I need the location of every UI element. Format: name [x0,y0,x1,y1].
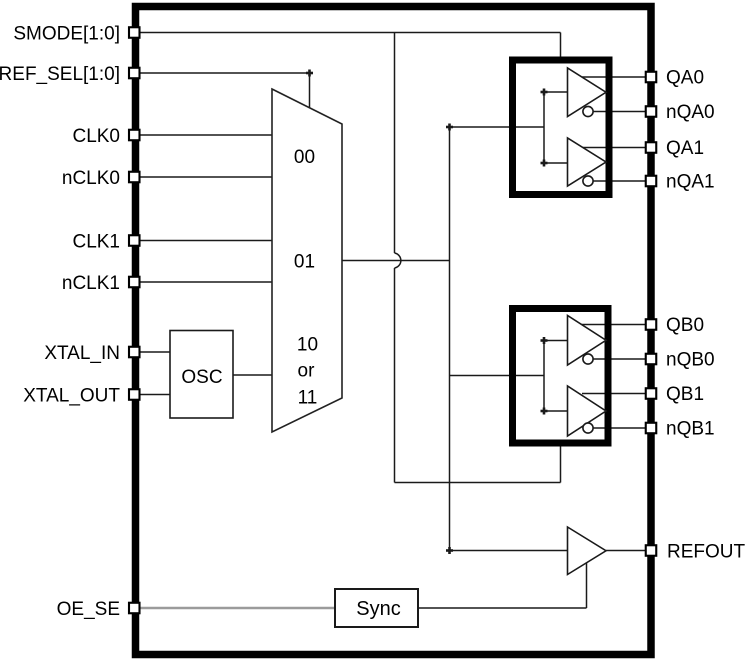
pin QA1 [646,142,657,153]
wire QA0 output [582,76,646,78]
inversion bubble on U4 [583,423,593,433]
svg-text:or: or [298,361,316,382]
junction nub bank B bottom [541,408,548,415]
svg-text:nCLK1: nCLK1 [62,273,120,294]
pin nQA0 [646,106,657,117]
wire CLK1 to mux [140,240,272,242]
pin nCLK1 [129,277,140,288]
svg-text:OE_SE: OE_SE [57,599,120,620]
svg-text:XTAL_OUT: XTAL_OUT [23,385,120,406]
pin nQA1 [646,176,657,187]
wire QA1 output [583,147,647,149]
wire SMODE drop into bank A top (x=561) [560,33,562,61]
svg-text:REF_SEL[1:0]: REF_SEL[1:0] [0,64,120,85]
sync block Sync [335,589,418,627]
pin CLK0 [129,130,140,141]
wire hop over mux output (arc bulging right) [395,253,401,268]
pin nQB1 [646,423,657,434]
svg-text:XTAL_IN: XTAL_IN [44,343,120,364]
pin nQB0 [646,354,657,365]
wire nCLK1 to mux [140,281,272,283]
svg-text:QB1: QB1 [666,384,704,405]
buffer U3 (QB0/nQB0) [568,316,607,366]
svg-text:CLK0: CLK0 [72,126,120,147]
svg-text:nQA1: nQA1 [666,171,715,192]
junction nub bank A bottom [541,160,548,167]
wire SMODE branch down at x=394.5 (upper segment) [394,33,396,254]
wire REFOUT output [606,550,646,552]
inversion bubble on U3 [583,354,593,364]
svg-text:10: 10 [297,335,318,356]
wire Sync output to REFOUT buffer enable [418,563,587,609]
junction nub at REF_SEL elbow [306,70,313,77]
inversion bubble on U2 [583,176,593,186]
bank A stub to buffer 1 [544,91,568,93]
svg-text:00: 00 [294,147,315,168]
wire nQB0 output [593,358,647,360]
wire feed to bank A (y=127) [450,126,545,128]
wire CLK0 to mux [140,134,272,136]
wire nCLK0 to mux [140,176,272,178]
svg-text:SMODE[1:0]: SMODE[1:0] [13,23,120,44]
bank B stub to buffer 4 [544,410,568,412]
pin SMODE[1:0] [129,27,140,38]
bank A stub to buffer 2 [544,162,568,164]
output bank A box (thick) [513,60,610,195]
wire REF_SEL to mux select [140,73,310,108]
device outer boundary box [136,7,652,655]
wire SMODE branch down at x=394.5 (lower segment) [394,268,396,483]
svg-text:QB0: QB0 [666,315,704,336]
svg-text:01: 01 [294,251,315,272]
pin REF_SEL[1:0] [129,68,140,79]
bank B stub to buffer 3 [544,340,568,342]
wire nQA1 output [593,180,647,182]
svg-text:nQA0: nQA0 [666,102,715,123]
svg-text:nCLK0: nCLK0 [62,168,120,189]
pin OE_SE [129,603,140,614]
wire rise into bank B bottom at x=561 [560,445,562,483]
pin XTAL_OUT [129,389,140,400]
pin QA0 [646,72,657,83]
pin nCLK0 [129,172,140,183]
svg-text:REFOUT: REFOUT [667,541,746,562]
wire feed to REFOUT buffer (y=550.5) [450,550,568,552]
pin XTAL_IN [129,347,140,358]
junction nub at bank A feed elbow [446,124,453,131]
wire QB1 output [582,393,646,395]
wire OE_SE to Sync (gray) [140,607,335,610]
buffer U5 REFOUT [568,527,607,575]
wire SMODE net (y=32.5 from pin to x=561) [140,32,561,34]
bank B internal distribution vertical [543,341,545,412]
pin QB0 [646,319,657,330]
mux M1 (trapezoid) [272,89,342,432]
pin REFOUT [646,545,657,556]
oscillator box OSC [170,331,233,419]
wire XTAL_OUT to OSC [140,394,170,396]
wire nQB1 output [593,427,647,429]
svg-text:QA1: QA1 [666,138,704,159]
wire bottom run from x=394.5 to x=561 at y=482.5 [395,482,561,484]
svg-text:11: 11 [298,388,318,409]
junction nub bank A top [541,89,548,96]
junction nub at REFOUT feed elbow [446,547,453,554]
wire feed to bank B (y=375.5) [450,375,545,377]
wire mux output y=260.5 [342,260,450,262]
pin QB1 [646,388,657,399]
junction nub bank B top [541,337,548,344]
buffer U2 (QA1/nQA1) [568,138,607,186]
wire XTAL_IN to OSC [140,351,170,353]
svg-text:QA0: QA0 [666,67,704,88]
wire QB0 output [582,324,647,326]
buffer U1 (QA0/nQA0) [568,68,607,117]
svg-text:nQB0: nQB0 [666,349,715,370]
wire nQA0 output [593,111,647,113]
pin CLK1 [129,235,140,246]
svg-text:CLK1: CLK1 [72,231,120,252]
inversion bubble on U1 [583,106,593,116]
wire main distribution vertical x=449.5 [449,127,451,551]
svg-text:Sync: Sync [356,598,400,620]
wire OSC output to mux [233,374,272,376]
svg-text:OSC: OSC [181,367,222,388]
output bank B box (thick) [513,309,609,444]
bank A internal distribution vertical [543,92,545,163]
svg-text:nQB1: nQB1 [666,418,715,439]
buffer U4 (QB1/nQB1) [568,386,607,436]
